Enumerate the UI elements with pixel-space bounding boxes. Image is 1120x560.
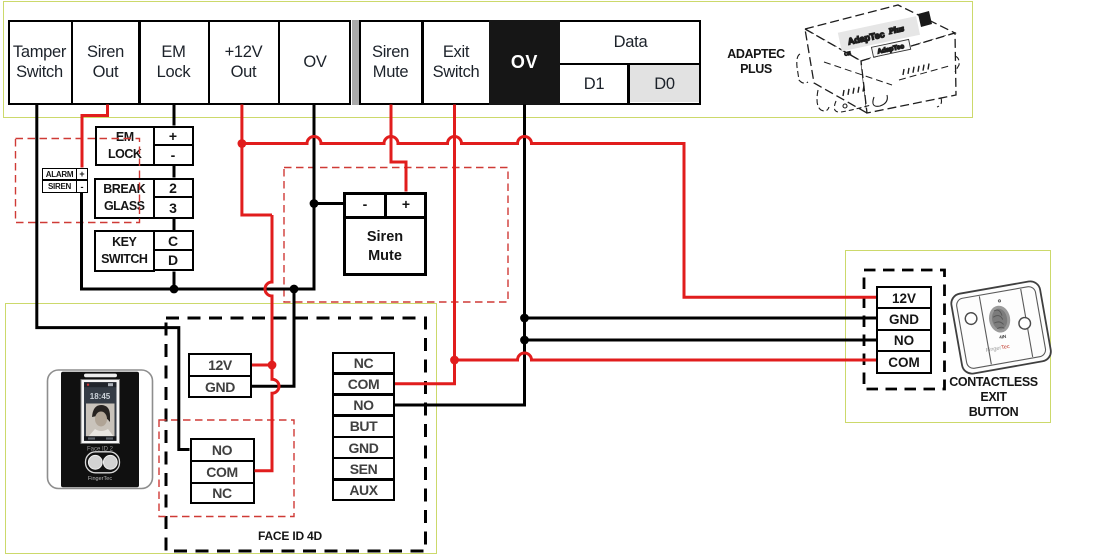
wire to contactless COM with hop <box>455 353 877 360</box>
wire BREAK GLASS 3 to KEY SWITCH C <box>173 219 176 230</box>
NO/COM/NC relay block <box>190 438 255 463</box>
junction OV/contactless GND <box>520 314 529 323</box>
label EM Lock <box>140 22 207 102</box>
BREAK GLASS block <box>94 178 156 220</box>
adaptec plus controller sketch <box>797 5 959 113</box>
label Siren Out <box>73 22 138 102</box>
wire 0V to siren mute minus <box>314 202 343 205</box>
EM LOCK block <box>95 126 156 167</box>
face reader device sketch <box>48 370 153 489</box>
svg-text:18:45: 18:45 <box>90 392 111 401</box>
bottom-left FACE ID yellow frame <box>5 303 437 554</box>
junction GND riser/ground rail <box>290 285 299 294</box>
junction 12V feed <box>268 361 277 370</box>
BREAK GLASS terminal 2 <box>153 178 194 200</box>
wire face 12V branch <box>252 364 272 367</box>
wire alarm siren minus down <box>80 193 83 291</box>
ALARM SIREN block <box>42 168 88 194</box>
label Exit Switch <box>424 22 488 102</box>
wire OV to contactless NO <box>525 339 877 342</box>
wire siren mute + <box>391 105 406 192</box>
contactless exit dashed enclosure <box>864 270 945 389</box>
Siren Mute caption <box>345 220 425 273</box>
wire OV to contactless GND <box>525 317 877 320</box>
wire tamper switch to relay NO <box>37 105 190 450</box>
junction exit/contactless COM <box>450 356 459 365</box>
right exit-button yellow frame <box>845 250 1051 423</box>
contactless exit button sketch <box>950 280 1053 375</box>
wire siren out to alarm + <box>82 105 108 168</box>
terminal strip 2 box <box>359 20 701 105</box>
label D1 <box>562 64 626 103</box>
D0 gray cell <box>630 65 699 102</box>
EM LOCK + terminal <box>153 126 194 148</box>
KEY SWITCH terminal C <box>153 230 194 252</box>
wire +12V rail with hops <box>242 137 876 298</box>
junction OV/contactless NO <box>520 336 529 345</box>
wire face GND riser <box>252 288 294 387</box>
label +12V Out <box>210 22 277 102</box>
wire exit switch to face COM <box>395 105 455 384</box>
wire 12V feed down with hops <box>255 215 280 471</box>
wire ground rail <box>82 288 315 291</box>
wire EM Lock to EM LOCK + <box>173 105 176 126</box>
junction dots <box>170 199 529 344</box>
label Data <box>562 22 699 62</box>
KEY SWITCH terminal D <box>153 249 194 272</box>
wire OV(2) down to face NO <box>395 105 525 406</box>
Siren Mute - terminal label <box>346 193 384 215</box>
junction 0V/siren mute <box>310 199 319 208</box>
12V/GND block <box>188 353 252 378</box>
EM LOCK - terminal <box>153 144 194 166</box>
junction +12V rail <box>238 139 247 148</box>
label 0V <box>280 22 350 102</box>
NC..AUX terminal strip <box>332 352 395 501</box>
Data cell <box>560 63 701 65</box>
wire KEY SWITCH D to ground rail <box>173 272 176 290</box>
label Siren Mute <box>360 22 421 102</box>
ADAPTEC PLUS caption <box>713 46 799 78</box>
OV black cell <box>489 20 560 105</box>
KEY SWITCH block <box>94 230 156 272</box>
terminal strip 1 box <box>8 20 351 105</box>
wire 0V down <box>313 105 316 291</box>
label D0 <box>630 64 699 103</box>
gray divider bar <box>352 20 359 105</box>
wire +12V down <box>242 105 272 216</box>
red dashed box siren-mute <box>284 168 508 303</box>
FACE ID 4D caption <box>230 528 350 544</box>
red dashed box alarm-siren <box>16 139 140 223</box>
Siren Mute + terminal label <box>387 193 425 215</box>
svg-text:FingerTec: FingerTec <box>88 476 112 482</box>
wire EM LOCK - to BREAK GLASS 2 <box>173 166 176 178</box>
top controller yellow frame <box>3 1 973 118</box>
BREAK GLASS terminal 3 <box>153 196 194 219</box>
label Tamper Switch <box>9 22 70 102</box>
red dashed box relay <box>159 420 294 517</box>
FACE ID 4D dashed enclosure <box>166 318 426 551</box>
junction D/ground rail <box>170 285 179 294</box>
CONTACTLESS EXIT BUTTON caption <box>944 373 1043 421</box>
